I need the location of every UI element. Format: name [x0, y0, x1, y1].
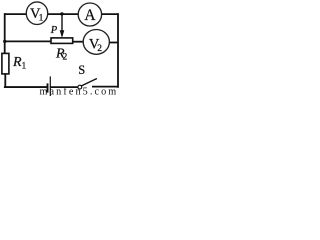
node junction on left rail [3, 40, 6, 43]
ammeter A [78, 3, 101, 26]
wire V2 to right rail [107, 42, 118, 44]
voltmeter V2 [83, 30, 109, 55]
wire below R1 to bottom rail [4, 74, 6, 88]
resistor R1 [2, 53, 9, 74]
svg-text:1: 1 [39, 14, 44, 24]
wire top (V1 to A to right rail) [4, 13, 118, 15]
wire wiper stem from top wire [61, 14, 63, 32]
svg-text:A: A [84, 7, 96, 24]
wire bottom mid (battery to switch) [50, 86, 78, 88]
node junction on top wire (wiper tap) [60, 12, 63, 15]
switch S pivot contact [78, 85, 82, 89]
svg-text:R: R [12, 55, 22, 70]
battery positive plate (long) [49, 76, 51, 96]
svg-text:1: 1 [22, 62, 27, 72]
svg-text:P: P [50, 25, 58, 36]
svg-text:S: S [78, 63, 85, 77]
wire R2 right end to V2 [73, 41, 85, 43]
svg-text:2: 2 [63, 53, 68, 63]
wire bottom right (switch to right rail) [92, 86, 119, 88]
wire bottom left (to battery) [4, 86, 47, 88]
switch S lever (open) [81, 79, 97, 86]
wiper arrowhead onto R2 [60, 30, 65, 38]
battery negative plate (short) [47, 83, 49, 92]
voltmeter V1 [26, 2, 47, 25]
wire left rail (top corner down to R1) [4, 13, 6, 54]
rheostat R2 [51, 38, 73, 44]
wire right rail [117, 13, 119, 88]
svg-text:2: 2 [97, 44, 102, 54]
wire middle (node A to R2 left end) [5, 40, 52, 42]
